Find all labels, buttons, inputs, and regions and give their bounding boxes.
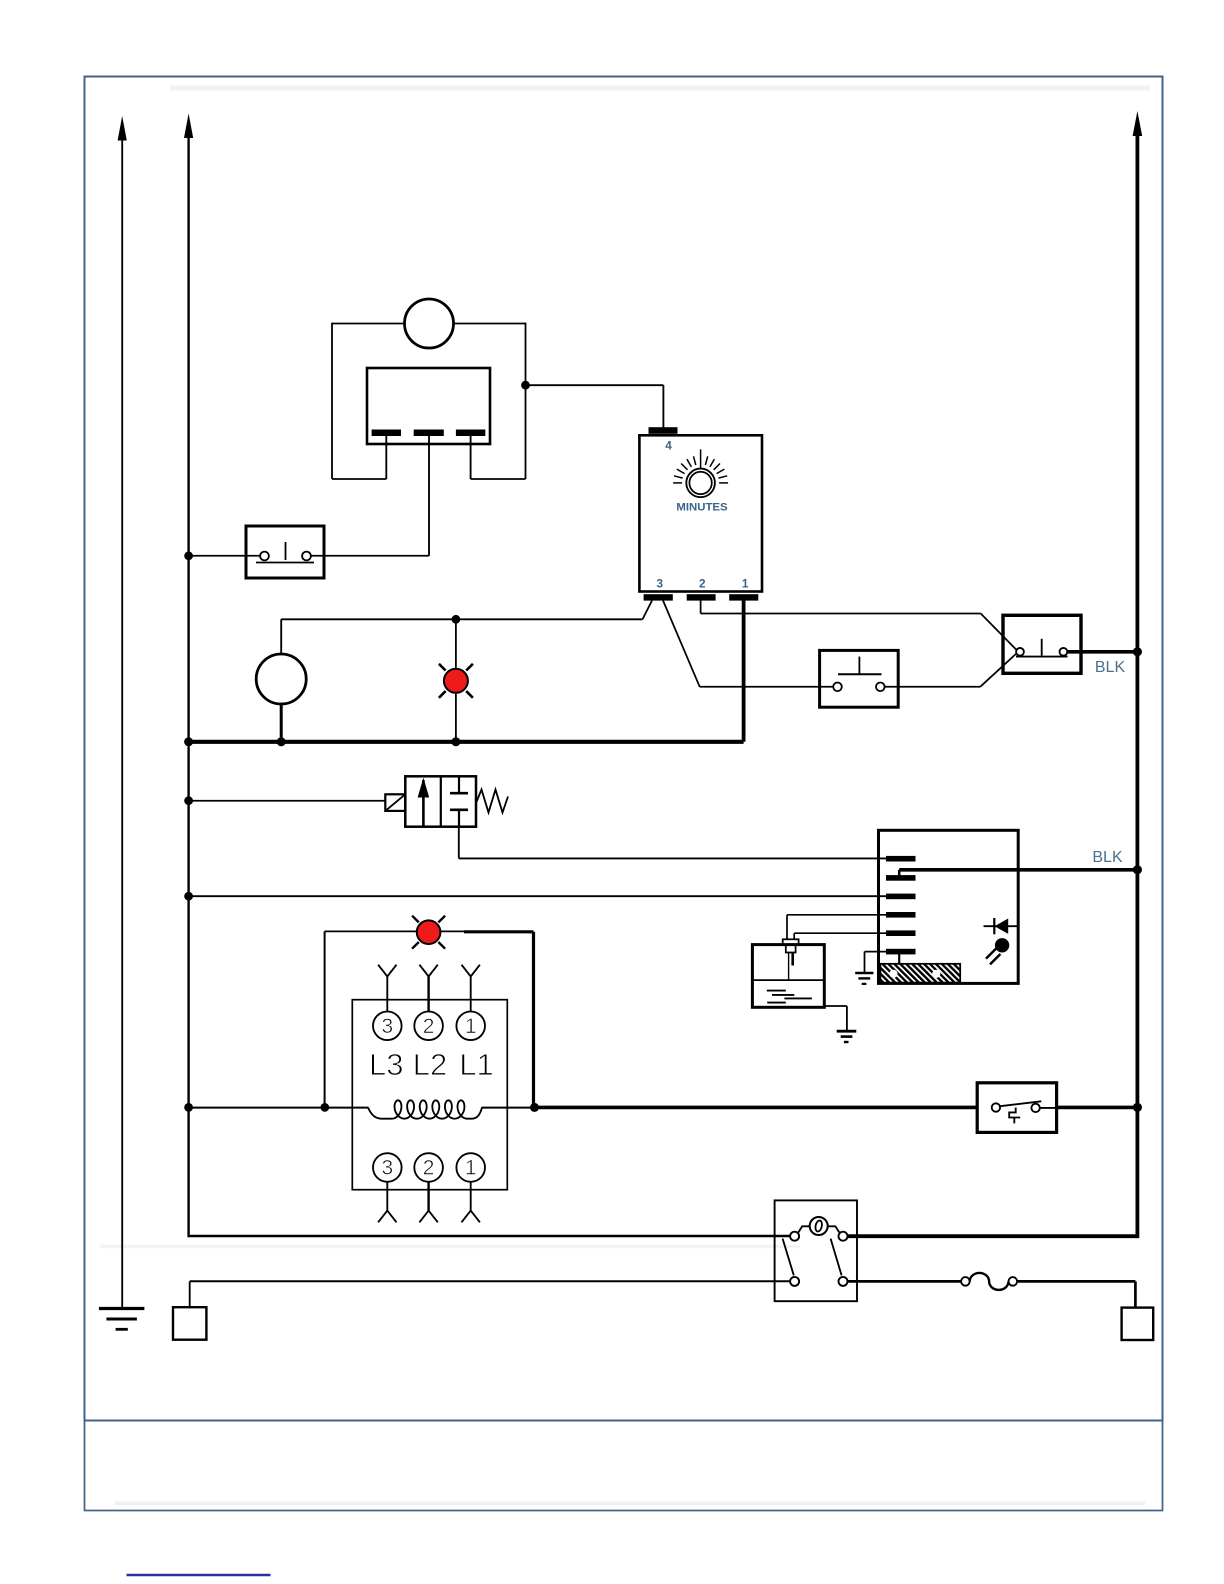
svg-text:BLK: BLK	[1095, 659, 1126, 676]
svg-text:1: 1	[465, 1157, 477, 1180]
svg-text:MINUTES: MINUTES	[676, 502, 728, 514]
svg-text:1: 1	[742, 577, 749, 591]
svg-text:2: 2	[423, 1157, 435, 1180]
svg-text:4: 4	[665, 439, 672, 453]
svg-text:1: 1	[465, 1015, 477, 1038]
svg-text:3: 3	[657, 577, 664, 591]
svg-text:BLK: BLK	[1092, 849, 1123, 866]
svg-text:L1: L1	[459, 1047, 493, 1082]
svg-text:L3: L3	[369, 1047, 403, 1082]
svg-text:L2: L2	[413, 1047, 447, 1082]
svg-text:3: 3	[381, 1015, 393, 1038]
svg-text:2: 2	[423, 1015, 435, 1038]
svg-text:2: 2	[699, 577, 706, 591]
svg-text:3: 3	[381, 1157, 393, 1180]
